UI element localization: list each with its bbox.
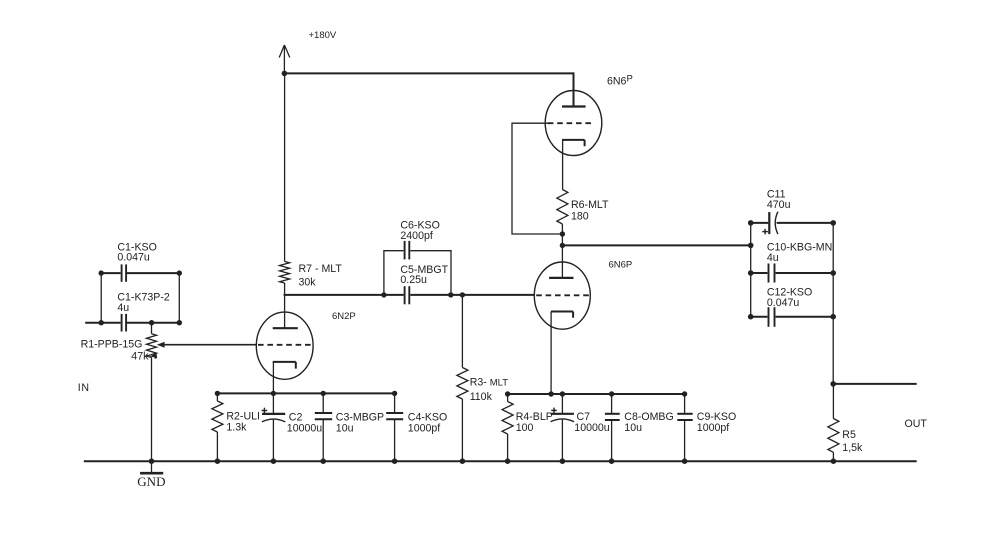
potentiometer R1-PPB-15G [151,323,153,334]
svg-text:6N2P: 6N2P [332,311,356,322]
svg-text:OUT: OUT [905,418,928,430]
C11 plus sign [762,229,768,235]
node C1 corners [99,270,183,325]
svg-text:1,5k: 1,5k [842,442,863,454]
wire V2 cathode to rail [550,312,552,395]
tube V3 6N2P envelope [256,312,313,379]
resistor R3-MLT [461,295,463,368]
wire V1 grid feedback to R6 bottom [512,123,562,234]
wire V3 grid to R1 wiper [162,344,256,346]
svg-text:470u: 470u [767,199,791,211]
V2 anode [549,277,573,279]
node output takeoff [560,243,565,248]
wire V3 cathode to rail [272,362,274,394]
capacitor C8-OMBG [611,394,613,414]
wire R1 bottom to ground [151,358,153,462]
svg-text:10000u: 10000u [574,422,609,434]
C2 plus sign [262,408,268,414]
node C5 right [448,292,453,297]
wire C6 parallel branch [384,251,451,295]
node R6/grid junction [560,231,565,236]
node ground bus dots [149,458,837,464]
wire V2 anode to output network [562,244,750,246]
capacitor C10-KBG-MN (middle branch) [751,272,834,274]
wire output network right rail [832,223,834,384]
wire OUT [833,383,917,385]
wire V3 anode node to V2 grid (y=295) [284,294,535,296]
svg-text:30k: 30k [299,276,317,288]
svg-text:R6-MLT: R6-MLT [571,199,609,211]
svg-text:1000pf: 1000pf [697,422,729,434]
capacitor C7 (electrolytic) [561,394,563,414]
node R3 top [460,292,465,297]
svg-text:0.25u: 0.25u [400,274,427,286]
V3 anode [273,327,298,329]
svg-text:R3-MLT: R3-MLT [470,376,509,388]
svg-text:0.047u: 0.047u [767,297,800,309]
capacitor C3-MBGP [322,393,324,413]
svg-text:47k: 47k [131,350,149,362]
resistor R6 [557,190,568,225]
wire ground bus [84,460,917,462]
svg-text:R5: R5 [842,429,856,441]
svg-text:C7: C7 [577,411,591,423]
capacitor C9-KSO [684,394,686,414]
node rail left dots [215,391,398,396]
tube V2 6N6P (lower) envelope [534,262,590,329]
V3 cathode [273,362,296,369]
power supply +180V arrow [279,45,290,73]
wire C1 right vertical [178,273,180,323]
wire +180V down to R7 [284,73,286,261]
svg-text:10u: 10u [624,422,642,434]
svg-text:4u: 4u [117,302,129,314]
capacitor C2 (electrolytic) [272,393,274,414]
wire cathode rail left (R2 C2 C3 C4) [217,392,394,394]
wire R7 bottom to anode node [284,283,286,296]
V1 cathode [562,140,585,146]
svg-text:6N6P: 6N6P [609,259,633,270]
svg-text:4u: 4u [767,252,779,264]
svg-text:C2: C2 [289,411,303,423]
node +180V junction [282,71,288,77]
svg-text:0.047u: 0.047u [117,252,150,264]
V2 cathode [551,312,573,318]
svg-text:110k: 110k [470,391,493,403]
V1 anode [562,105,586,107]
resistor R4-BLP [507,394,509,402]
svg-text:GND: GND [137,474,165,489]
svg-text:R4-BLP: R4-BLP [516,411,553,423]
ground symbol GND [151,461,153,472]
wire +180V rail to V1 anode [284,73,573,106]
resistor R7 [280,262,290,284]
wire V1 cathode to R6 [562,140,564,190]
C7 plus sign [551,408,557,414]
svg-text:10u: 10u [336,423,354,435]
wire R6 bottom to V2 anode [561,224,563,278]
capacitor C4-KSO [394,393,396,413]
capacitor C1-K73P-2 bottom branch with input wire [85,322,179,324]
svg-text:+180V: +180V [309,30,337,41]
V3 grid (dashed) [258,344,311,346]
svg-text:C9-KSO: C9-KSO [697,411,736,423]
capacitor C12-KSO (bottom branch) [751,316,834,318]
svg-text:1.3k: 1.3k [226,422,247,434]
svg-text:100: 100 [516,422,534,434]
tube V1 6N6P (upper) envelope [545,91,602,156]
svg-text:10000u: 10000u [287,423,322,435]
capacitor C11 (electrolytic, top branch) [751,222,834,224]
capacitor C5-MBGT (in line) [405,286,410,304]
wire cathode rail right (R4 C7 C8 C9) [508,393,685,395]
wire C1 left vertical [100,273,102,323]
svg-text:180: 180 [571,211,589,223]
node rail right dots [505,391,687,396]
svg-text:C8-OMBG: C8-OMBG [624,411,673,423]
node C5 left [381,292,386,297]
R1 wiper arrowhead [157,342,165,348]
svg-text:C4-KSO: C4-KSO [408,411,447,423]
svg-text:C3-MBGP: C3-MBGP [336,411,384,423]
capacitor C1-KSO top branch [101,272,179,274]
svg-text:6N6P: 6N6P [607,74,633,88]
V3 anode lead [284,295,286,328]
svg-text:R1-PPB-15G: R1-PPB-15G [81,338,143,350]
svg-text:1000pf: 1000pf [408,423,440,435]
svg-text:2400pf: 2400pf [400,230,432,242]
V2 grid (dashed) [536,294,590,296]
V1 grid (dashed) [548,122,593,124]
wire output network left rail [750,223,752,317]
resistor R5 [832,384,834,419]
node OUT junction [830,381,836,387]
node output network dots [748,220,836,319]
capacitor C6-KSO [405,241,410,260]
svg-text:R7 - MLT: R7 - MLT [299,263,343,275]
resistor R2-ULI [216,393,218,401]
svg-text:IN: IN [78,382,90,394]
